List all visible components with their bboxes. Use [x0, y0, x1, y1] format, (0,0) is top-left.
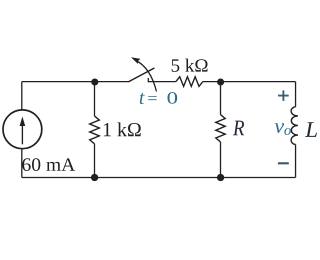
node dot top-middle junction: [217, 78, 224, 85]
wire: R branch lower: [220, 142, 222, 178]
wire: bottom rail: [22, 177, 296, 179]
node dot bottom-left junction: [91, 174, 98, 181]
inductor L coil: [291, 107, 298, 145]
resistor R zigzag: [216, 115, 225, 142]
wire: 1k branch lower: [94, 144, 96, 178]
current source 60 mA circle: [3, 110, 42, 149]
value label 1 kOhm: [104, 122, 141, 136]
wire: R branch upper: [220, 82, 222, 115]
resistor label R: [233, 121, 244, 136]
switch label t = 0: [140, 93, 145, 104]
wire: top rail resistor to right corner: [203, 81, 296, 83]
switch right contact tick: [147, 78, 149, 82]
switch opening arc: [135, 60, 156, 92]
value label 5 kOhm: [172, 59, 208, 72]
polarity minus sign: [278, 162, 289, 164]
wire: right branch lower: [295, 145, 297, 178]
polarity plus sign: [278, 90, 289, 101]
voltage label v_o: [275, 123, 285, 133]
switch arc arrowhead: [131, 57, 141, 64]
inductor label L: [305, 122, 317, 137]
resistor 5 kOhm zigzag: [176, 77, 203, 87]
current source arrowhead: [20, 117, 26, 127]
value label 60 mA: [22, 158, 75, 171]
wire: left branch lower: [21, 149, 23, 178]
wire: left branch upper: [21, 82, 23, 110]
node dot bottom-middle junction: [217, 174, 224, 181]
wire: 1k branch upper: [94, 82, 96, 117]
wire: right branch upper: [295, 82, 297, 107]
wire: top rail left segment: [22, 81, 129, 83]
wire: top rail switch to resistor: [148, 81, 176, 83]
current source arrow shaft: [21, 122, 23, 145]
switch blade: [128, 68, 154, 82]
node dot top-left junction: [91, 78, 98, 85]
resistor 1 kOhm zigzag: [90, 116, 100, 144]
